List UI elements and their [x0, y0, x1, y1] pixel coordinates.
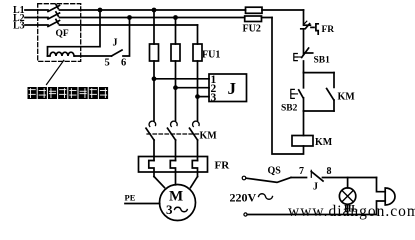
coil KM	[292, 136, 313, 147]
svg-text:J: J	[313, 182, 318, 193]
wire bottom return	[247, 214, 376, 216]
wire coil to J switch terminal 5	[75, 55, 112, 57]
wire SB2 to coil	[303, 111, 305, 136]
fuse FU1 pole 2 wire	[175, 18, 177, 121]
fuse FU1 pole 2	[171, 44, 180, 61]
wire J contact to right	[323, 177, 377, 179]
wire node top branch	[304, 72, 335, 74]
bell HA	[385, 188, 395, 205]
svg-text:QS: QS	[268, 166, 282, 177]
svg-text:QF: QF	[56, 29, 69, 39]
svg-text:KM: KM	[338, 92, 356, 103]
breaker QF pole 3	[48, 19, 60, 26]
thermal relay FR box	[139, 157, 208, 173]
fuse FU2 label	[243, 24, 261, 35]
thermal FR heater 2	[170, 161, 175, 185]
node junction dot L2/FU1b	[173, 15, 178, 20]
lamp HL	[339, 188, 355, 204]
lamp HL label	[344, 205, 358, 215]
wire coil return	[272, 18, 304, 155]
breaker QF pole 2	[48, 12, 60, 19]
motor lead left	[154, 177, 165, 188]
wire SB1 to node	[303, 61, 305, 73]
pin 1 label	[211, 74, 217, 86]
wire L1	[25, 9, 304, 11]
thermal FR label	[215, 160, 231, 172]
source 220V label	[230, 191, 273, 205]
svg-text:FR: FR	[322, 25, 335, 35]
node junction dot L1/coil	[98, 8, 103, 13]
motor M circle	[160, 185, 196, 221]
relay box J label	[228, 79, 237, 98]
annotation text 欠压脱扣器线圈 (drawn blocks)	[28, 87, 109, 99]
contactor KM main contact 1	[146, 121, 156, 140]
contactor KM main contact 3	[190, 121, 200, 140]
terminal 5 label	[105, 58, 110, 69]
svg-text:5: 5	[105, 58, 110, 69]
svg-text:SB1: SB1	[314, 56, 331, 66]
wire contacts to FR box	[154, 140, 198, 161]
pushbutton SB1 label	[314, 56, 331, 66]
node L1 label	[13, 5, 25, 16]
svg-text:6: 6	[121, 58, 126, 69]
relay box J	[209, 74, 247, 102]
fuse FU2 pole 2	[245, 16, 262, 22]
breaker QF label	[56, 29, 69, 39]
node L2 label	[13, 13, 25, 24]
wire tap pin2	[176, 87, 210, 89]
contactor KM aux label	[338, 92, 356, 103]
wire node bottom branch	[304, 110, 335, 112]
switch QS blade	[246, 178, 291, 183]
ground PE wire	[125, 203, 160, 205]
wire control phase down	[303, 10, 305, 24]
lamp HL wire bottom	[347, 204, 349, 214]
relay contact J (7-8)	[311, 170, 323, 181]
wire FR to SB1	[303, 29, 305, 54]
pushbutton SB1 (NC stop)	[294, 48, 313, 61]
switch J label	[113, 38, 118, 49]
svg-text:KM: KM	[315, 137, 333, 148]
node L3 label	[13, 21, 25, 32]
terminal 8 label	[327, 166, 332, 177]
motor M label	[169, 189, 183, 205]
ground PE label	[125, 193, 136, 203]
node junction dot tap 2	[173, 85, 178, 90]
fuse FU2 pole 1	[246, 7, 263, 13]
fuse FU1 pole 3	[193, 44, 202, 61]
svg-text:8: 8	[327, 166, 332, 177]
fuse FU1 pole 1 wire	[153, 10, 155, 121]
thermal FR heater 3	[192, 161, 197, 177]
svg-text:7: 7	[299, 166, 304, 177]
contactor KM main label	[200, 131, 218, 142]
terminal 6 label	[121, 58, 126, 69]
motor lead right	[191, 177, 198, 188]
svg-text:FR: FR	[215, 160, 231, 172]
breaker QF pole 1	[48, 4, 60, 11]
svg-text:SB2: SB2	[281, 104, 298, 114]
pushbutton SB2 label	[281, 104, 298, 114]
lamp HL wire top	[347, 178, 349, 188]
svg-text:3: 3	[166, 202, 173, 217]
fuse FU1 pole 1	[150, 44, 159, 61]
node junction dot tap 1	[152, 76, 157, 81]
svg-text:L3: L3	[13, 21, 25, 32]
fuse FU1 pole 3 wire	[197, 25, 199, 121]
wire from L1 down to coil loop	[48, 10, 101, 56]
pin 3 label	[211, 92, 217, 104]
switch J (5-6) blade	[112, 50, 123, 56]
pushbutton SB2 (NO start)	[291, 73, 304, 111]
annotation arrow to coil	[47, 60, 64, 84]
svg-text:J: J	[113, 38, 118, 49]
contactor KM aux contact	[327, 73, 334, 111]
svg-text:PE: PE	[125, 193, 136, 203]
node junction dot L2/J6	[127, 15, 132, 20]
wire L3	[25, 24, 198, 26]
svg-text:KM: KM	[200, 131, 218, 142]
switch QS label	[268, 166, 282, 177]
wire tap pin1	[154, 78, 209, 80]
breaker QF dashed enclosure	[38, 4, 81, 62]
coil KM label	[315, 137, 333, 148]
thermal contact FR label	[322, 25, 335, 35]
pin 2 label	[211, 83, 217, 95]
node junction dot L1/FU1a	[152, 8, 157, 13]
thermal FR heater 1	[149, 161, 154, 177]
svg-text:3: 3	[211, 92, 217, 104]
thermal contact FR (NC)	[301, 21, 318, 34]
inductor undervoltage release coil	[48, 52, 75, 56]
watermark	[288, 203, 415, 220]
wire tap pin3	[198, 96, 210, 98]
fuse FU1 label	[202, 50, 220, 61]
svg-text:J: J	[228, 79, 237, 98]
svg-text:FU1: FU1	[202, 50, 220, 61]
svg-text:220V: 220V	[230, 191, 257, 205]
switch QS terminal	[242, 176, 246, 180]
source terminal bottom	[244, 213, 247, 216]
svg-text:HL: HL	[344, 205, 358, 215]
terminal 7 label	[299, 166, 304, 177]
bell wires	[377, 178, 386, 215]
contactor KM main contact 2	[168, 121, 178, 140]
svg-text:FU2: FU2	[243, 24, 261, 35]
motor 3~ label	[166, 202, 187, 217]
wire J terminal 6 up to L2	[123, 18, 130, 57]
relay contact J label	[313, 182, 318, 193]
node junction dot tap 3	[195, 94, 200, 99]
contactor linkage dashed	[147, 133, 199, 135]
wire QS to J contact	[291, 177, 307, 179]
wire L2	[25, 17, 272, 19]
